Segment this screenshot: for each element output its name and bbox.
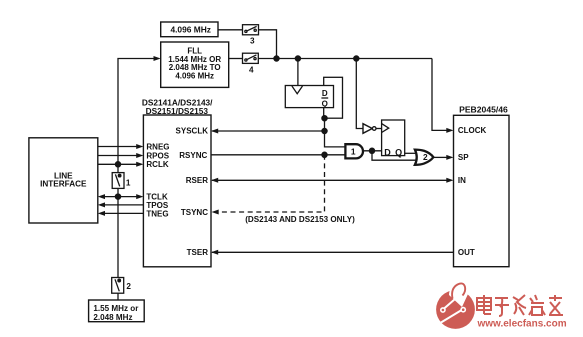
wire: RCLK [98, 163, 137, 165]
inverter U2 [356, 59, 381, 134]
wire: TCLK junction down to switch 2 [117, 197, 119, 278]
wire: clock line down to PEB CLOCK [432, 59, 447, 131]
watermark elecfans logo [436, 283, 475, 328]
wire: TNEG [105, 212, 144, 214]
svg-text:PEB2045/46: PEB2045/46 [459, 104, 508, 114]
node: junction switch3/switch4 [274, 56, 279, 61]
svg-text:1: 1 [126, 179, 131, 188]
oscillator box 1.55 MHz or 2.048 MHz [89, 300, 145, 322]
svg-text:(DS2143 AND DS2153 ONLY): (DS2143 AND DS2153 ONLY) [245, 215, 355, 224]
svg-text:1.55 MHz or: 1.55 MHz or [93, 304, 139, 313]
svg-text:RPOS: RPOS [146, 151, 169, 160]
arrow into PEB IN [446, 178, 453, 183]
svg-text:SP: SP [458, 153, 469, 162]
svg-text:4.096 MHz: 4.096 MHz [170, 24, 211, 34]
framer block DS2141A/DS2143/DS2151/DS2153 [142, 97, 213, 266]
FLL block [161, 42, 229, 87]
arrow into TSYNC [212, 210, 219, 215]
svg-text:Q: Q [322, 100, 328, 109]
wire: 4.096 MHz box to switch 3 [218, 29, 243, 31]
wire: RPOS [98, 155, 137, 157]
svg-text:www.elecfans.com: www.elecfans.com [477, 319, 567, 330]
svg-text:D: D [322, 89, 328, 98]
svg-text:1: 1 [351, 146, 356, 156]
flip-flop U1 divide-by-two [285, 77, 342, 118]
svg-text:2: 2 [423, 152, 428, 162]
wire: SYSCLK line [212, 130, 325, 132]
switch SW4 [243, 53, 259, 74]
wire: OR output to PEB SP [433, 156, 446, 158]
node: FF1 output junction [322, 116, 327, 121]
wire: TSER to OUT line [212, 251, 454, 253]
svg-text:RSYNC: RSYNC [179, 151, 207, 160]
oscillator box 4.096 MHz [161, 22, 218, 37]
OR gate G2 [415, 150, 434, 165]
svg-text:TSYNC: TSYNC [181, 208, 208, 217]
svg-text:4: 4 [249, 65, 254, 74]
switch SW3 [243, 25, 259, 46]
arrow into TSER [211, 250, 218, 255]
wire: switch 2 to oscillator [117, 293, 119, 300]
wire: TPOS [105, 204, 144, 206]
svg-text:3: 3 [250, 36, 255, 45]
node: RSYNC/TSYNC branch junction [322, 152, 327, 157]
wire: RSYNC line to AND gate [211, 154, 345, 156]
wire: RSER to IN line [212, 179, 447, 181]
node: AND output junction [369, 148, 374, 153]
svg-text:TNEG: TNEG [146, 209, 168, 218]
wire: drop to FF1 clock input [297, 59, 299, 87]
wire: main clock line from switch 4 [258, 58, 432, 60]
wire: RNEG [98, 146, 137, 148]
switch SW1 [112, 173, 131, 189]
LINE INTERFACE block [29, 138, 98, 223]
wire: RCLK junction down to switch 1 [117, 164, 119, 172]
arrow into RSER [211, 178, 218, 183]
wire: FF2 Q output to OR gate [405, 152, 417, 154]
arrow into PEB CLOCK [446, 128, 453, 133]
svg-text:IN: IN [458, 176, 466, 185]
arrow into FLL [154, 56, 161, 61]
svg-text:OUT: OUT [458, 248, 475, 257]
svg-text:TSER: TSER [187, 248, 209, 257]
svg-text:2: 2 [126, 282, 131, 291]
svg-text:RSER: RSER [186, 176, 208, 185]
svg-text:SYSCLK: SYSCLK [176, 127, 209, 136]
wire: FLL to switch 4 [229, 58, 243, 60]
node: TCLK junction [115, 194, 120, 199]
node: junction inverter branch [354, 56, 359, 61]
wire: TCLK [105, 196, 137, 198]
wire: AND output to FF2 D input [363, 150, 382, 152]
arrow into SYSCLK [211, 129, 218, 134]
wire: switch 3 output to junction [259, 30, 277, 59]
svg-text:RNEG: RNEG [146, 142, 169, 151]
node: RCLK junction [115, 162, 120, 167]
node: SYSCLK junction [322, 128, 327, 133]
PEB2045/46 block [454, 104, 510, 266]
node: junction FF1 clock [295, 56, 300, 61]
watermark text dianzifashaoyou [477, 295, 563, 316]
wire: dashed TSYNC branch [219, 155, 325, 212]
svg-text:CLOCK: CLOCK [458, 126, 487, 135]
svg-text:INTERFACE: INTERFACE [40, 180, 87, 189]
AND gate G1 [345, 144, 363, 158]
svg-text:RCLK: RCLK [146, 160, 168, 169]
arrow into PEB SP [446, 155, 453, 160]
svg-text:Q: Q [395, 147, 402, 157]
wire: switch 1 to TCLK junction [117, 188, 119, 196]
wire: AND output branch to OR gate [372, 151, 416, 160]
flip-flop U3 [382, 120, 405, 157]
wire: FF1 output down to AND gate input [325, 118, 345, 147]
svg-text:D: D [384, 147, 391, 157]
svg-text:2.048 MHz: 2.048 MHz [93, 313, 132, 322]
wire: reference clock up to FLL input [118, 59, 154, 165]
svg-text:4.096 MHz: 4.096 MHz [175, 71, 214, 80]
switch SW2 [112, 278, 132, 294]
